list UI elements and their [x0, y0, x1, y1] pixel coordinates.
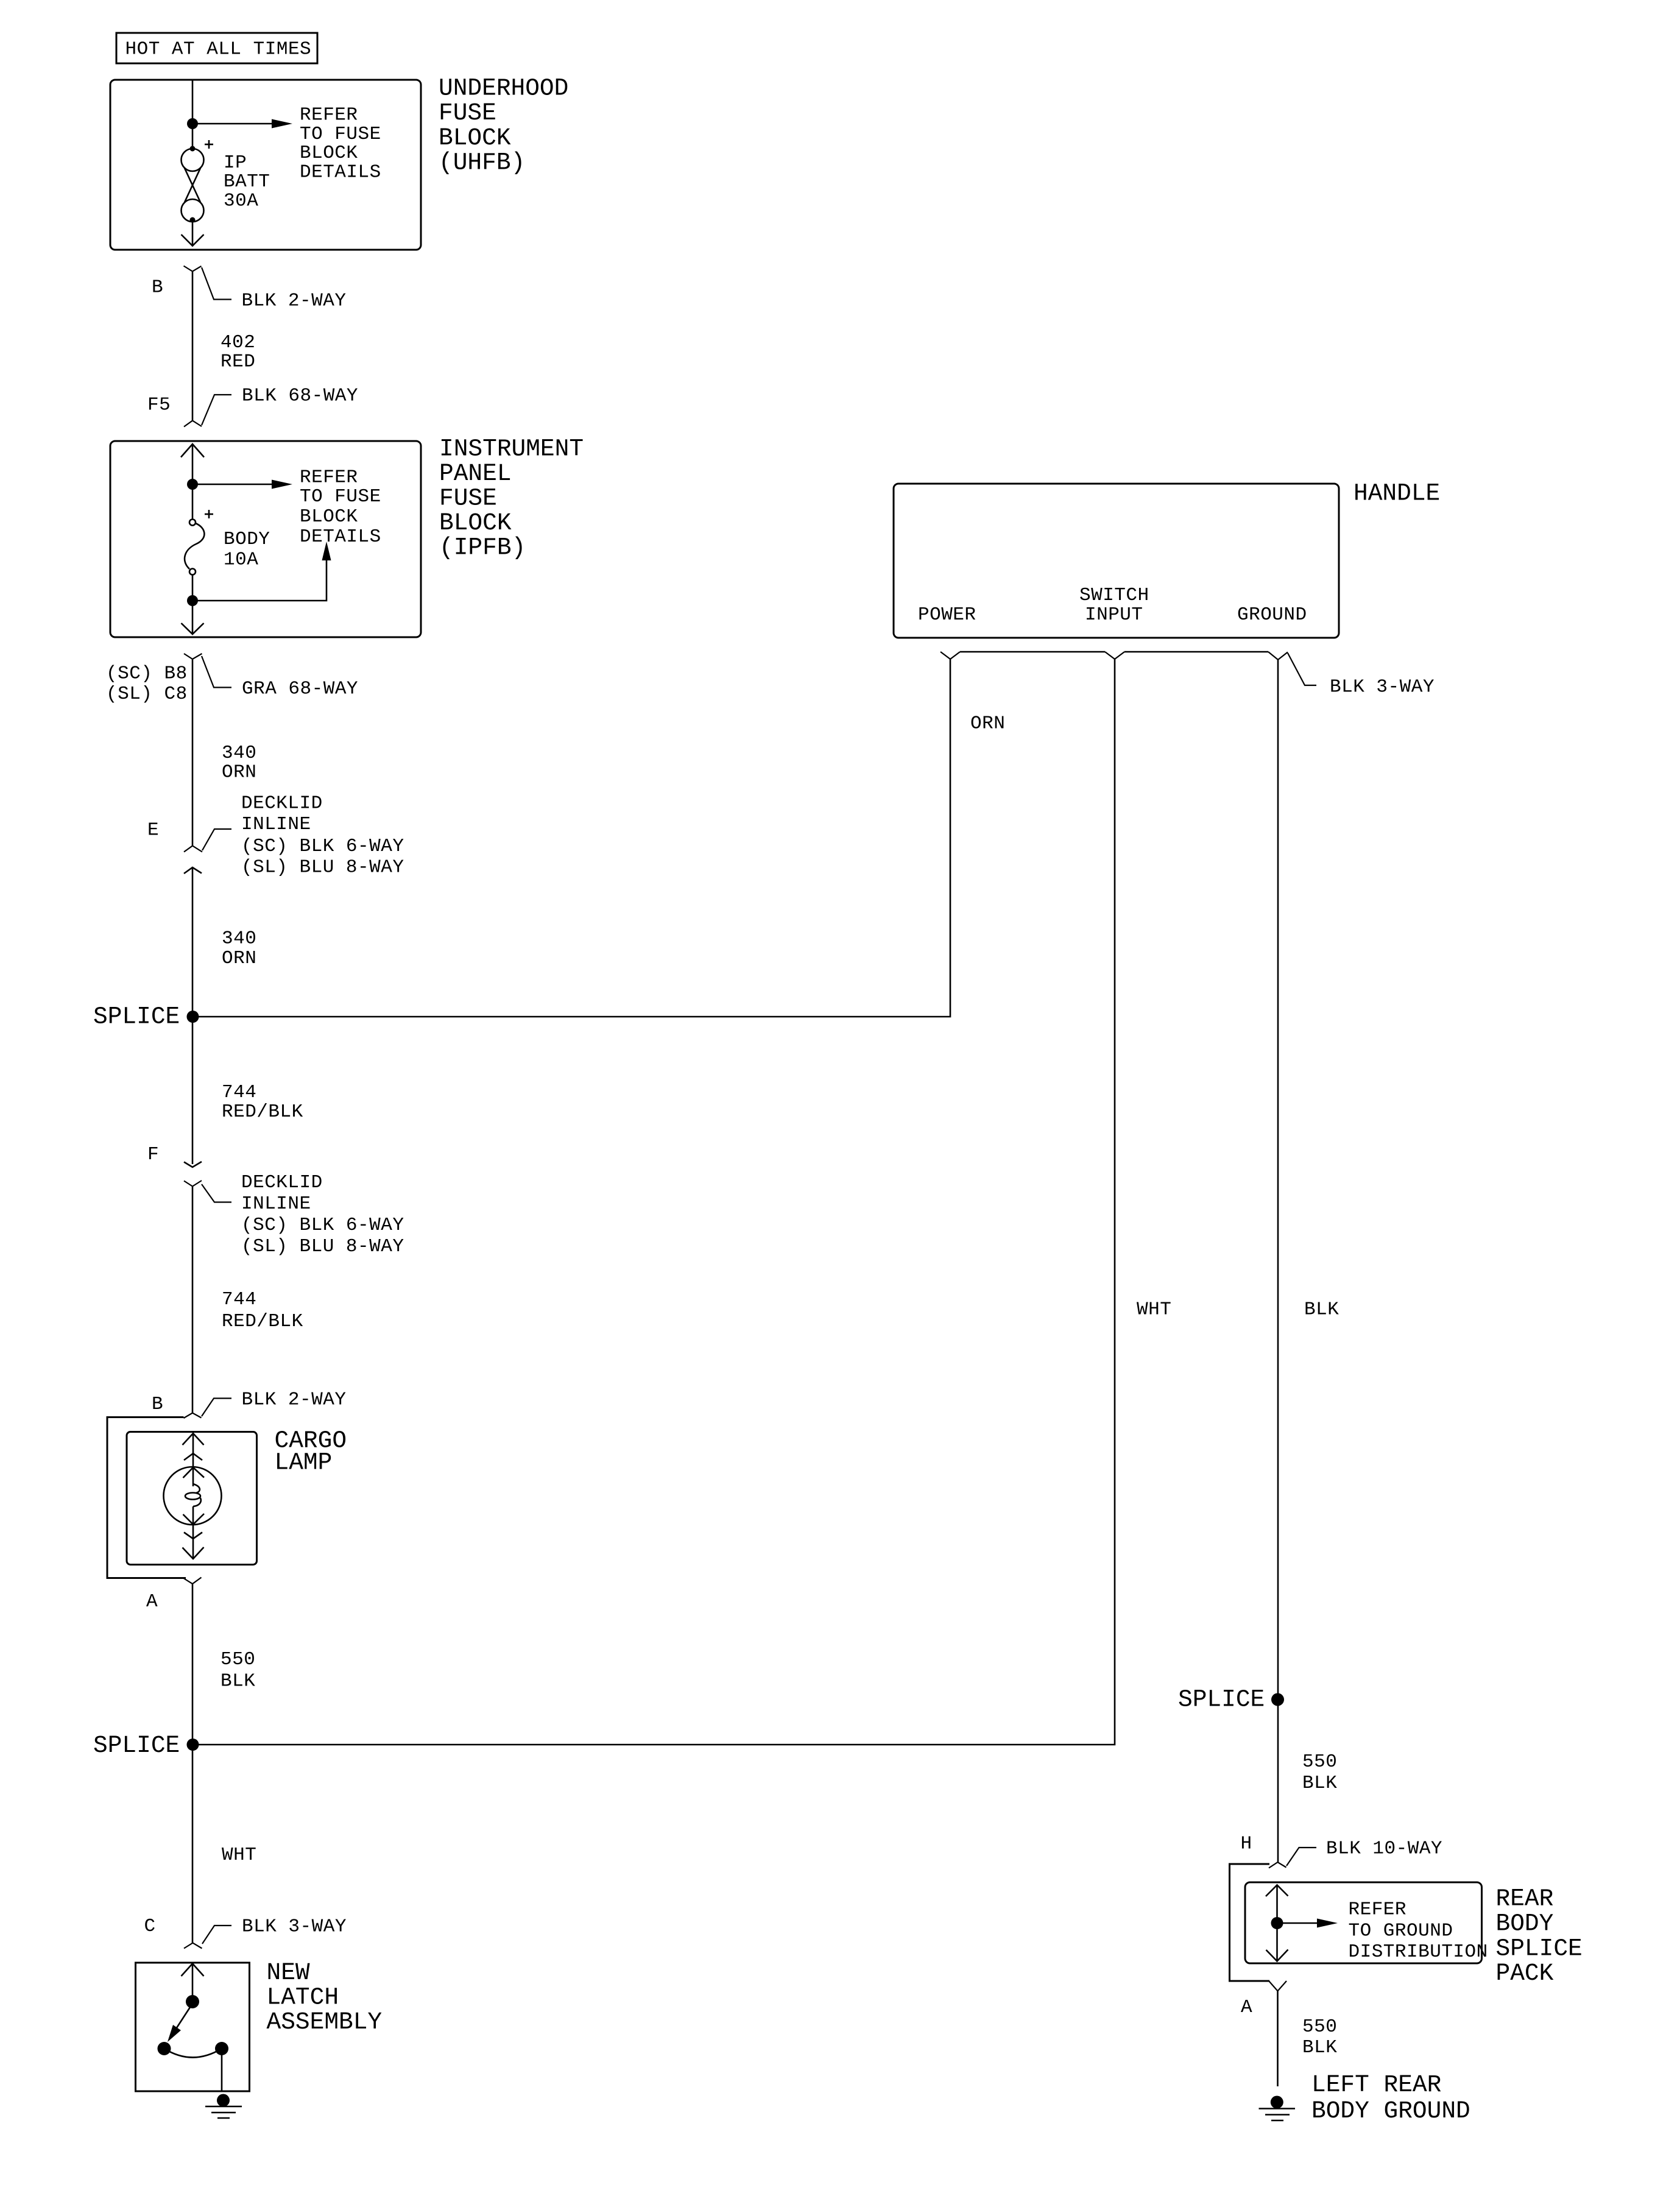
- svg-text:BLK 2-WAY: BLK 2-WAY: [242, 291, 347, 312]
- svg-text:WHT: WHT: [1137, 1299, 1171, 1321]
- ground symbol latch: [205, 2094, 242, 2119]
- svg-text:GRA 68-WAY: GRA 68-WAY: [242, 679, 358, 700]
- svg-text:BLK 10-WAY: BLK 10-WAY: [1326, 1838, 1442, 1860]
- label 550 BLK right upper: [1302, 1751, 1337, 1794]
- svg-text:(SC) BLK 6-WAY: (SC) BLK 6-WAY: [241, 836, 404, 857]
- label REFER TO FUSE BLOCK DETAILS (UHFB): [300, 105, 381, 183]
- plus terminal mark: [205, 140, 213, 149]
- arrow to ground distribution: [1277, 1919, 1338, 1928]
- rear body splice pack box: [1245, 1882, 1482, 1963]
- svg-text:402: 402: [221, 332, 255, 353]
- svg-text:RED: RED: [221, 351, 255, 372]
- svg-text:H: H: [1241, 1834, 1252, 1855]
- svg-text:DECKLID: DECKLID: [241, 793, 323, 814]
- svg-text:(IPFB): (IPFB): [439, 534, 526, 562]
- hot at all times label box: [116, 33, 317, 63]
- underhood fuse block UHFB box: [110, 80, 421, 250]
- cargo lamp bulb symbol: [164, 1433, 222, 1559]
- svg-text:TO FUSE: TO FUSE: [300, 124, 381, 145]
- connector A splice pack: [1269, 1981, 1286, 1991]
- svg-text:(SC) B8: (SC) B8: [106, 663, 188, 685]
- label DECKLID INLINE (SC) BLK 6-WAY (SL) BLU 8-WAY upper: [241, 793, 404, 878]
- svg-text:DISTRIBUTION: DISTRIBUTION: [1349, 1941, 1488, 1963]
- wire 402 RED: [192, 272, 194, 421]
- label 744 RED/BLK upper: [222, 1082, 303, 1123]
- svg-text:BLK: BLK: [1302, 2037, 1337, 2058]
- svg-text:RED/BLK: RED/BLK: [222, 1311, 303, 1332]
- label 402 RED: [221, 332, 255, 372]
- junction dot in UHFB: [187, 118, 198, 129]
- svg-text:RED/BLK: RED/BLK: [222, 1101, 303, 1123]
- svg-text:F5: F5: [147, 395, 171, 416]
- svg-text:BLOCK: BLOCK: [300, 506, 358, 528]
- svg-text:LATCH: LATCH: [267, 1984, 339, 2011]
- connector C BLK 3-WAY: [184, 1926, 231, 1949]
- label 744 RED/BLK lower: [222, 1289, 303, 1332]
- inline connector F decklid: [184, 1162, 231, 1202]
- svg-text:(SL) C8: (SL) C8: [106, 683, 188, 705]
- svg-text:TO GROUND: TO GROUND: [1349, 1920, 1453, 1941]
- svg-text:A: A: [1241, 1997, 1252, 2018]
- svg-text:REFER: REFER: [1349, 1899, 1407, 1921]
- svg-text:FUSE: FUSE: [439, 99, 496, 127]
- wire 744 RED/BLK lower: [192, 1187, 194, 1413]
- plus terminal mark IPFB: [205, 510, 213, 518]
- svg-text:BODY: BODY: [224, 529, 270, 550]
- svg-text:B: B: [152, 277, 163, 298]
- svg-text:SWITCH: SWITCH: [1079, 585, 1149, 606]
- svg-text:SPLICE: SPLICE: [1178, 1686, 1265, 1714]
- svg-text:PANEL: PANEL: [439, 460, 512, 487]
- svg-text:FUSE: FUSE: [439, 485, 497, 512]
- label DECKLID INLINE (SC) BLK 6-WAY (SL) BLU 8-WAY lower: [241, 1172, 404, 1257]
- label CARGO LAMP: [275, 1427, 347, 1477]
- label INSTRUMENT PANEL FUSE BLOCK (IPFB): [439, 436, 584, 562]
- pin label SWITCH INPUT: [1079, 585, 1149, 626]
- svg-text:ORN: ORN: [222, 948, 256, 969]
- svg-text:BODY GROUND: BODY GROUND: [1311, 2097, 1470, 2125]
- svg-text:10A: 10A: [224, 549, 258, 571]
- svg-text:340: 340: [222, 928, 256, 950]
- svg-text:TO FUSE: TO FUSE: [300, 486, 381, 507]
- svg-text:B: B: [152, 1394, 163, 1415]
- svg-text:LEFT REAR: LEFT REAR: [1311, 2071, 1441, 2099]
- label REAR BODY SPLICE PACK: [1496, 1885, 1583, 1987]
- label REFER TO FUSE BLOCK DETAILS (IPFB): [300, 467, 381, 548]
- wire with up arrow entering IPFB: [181, 444, 204, 520]
- svg-text:(SL) BLU 8-WAY: (SL) BLU 8-WAY: [241, 857, 404, 878]
- connector A cargo lamp: [184, 1578, 202, 1584]
- new latch assembly box: [136, 1963, 250, 2091]
- wire 550 BLK left: [192, 1584, 194, 1943]
- svg-text:A: A: [146, 1591, 158, 1612]
- latch switch symbol: [158, 1964, 229, 2091]
- svg-text:INLINE: INLINE: [241, 1193, 311, 1215]
- label 550 BLK left: [221, 1649, 255, 1692]
- wire BLK ground from handle: [1277, 660, 1279, 1862]
- splice pack junction dot: [1271, 1917, 1283, 1929]
- svg-text:SPLICE: SPLICE: [93, 1732, 180, 1759]
- svg-text:(SL) BLU 8-WAY: (SL) BLU 8-WAY: [241, 1236, 404, 1257]
- cargo lamp housing bracket: [107, 1417, 186, 1578]
- label 550 BLK right lower: [1302, 2016, 1337, 2058]
- wire with down arrow exiting IPFB: [182, 574, 204, 634]
- wire inside UHFB: [192, 80, 194, 149]
- svg-text:ASSEMBLY: ASSEMBLY: [267, 2008, 383, 2036]
- svg-text:SPLICE: SPLICE: [93, 1003, 180, 1031]
- label REFER TO GROUND DISTRIBUTION: [1349, 1899, 1488, 1963]
- svg-text:POWER: POWER: [918, 604, 976, 626]
- svg-text:550: 550: [1302, 1751, 1337, 1773]
- circuit breaker BODY 10A: [185, 520, 204, 575]
- svg-text:F: F: [147, 1144, 159, 1165]
- svg-text:30A: 30A: [224, 191, 258, 212]
- fuse IP BATT 30A: [182, 146, 204, 223]
- svg-text:REAR: REAR: [1496, 1885, 1554, 1912]
- svg-text:340: 340: [222, 743, 256, 764]
- svg-text:BLK: BLK: [1304, 1299, 1339, 1321]
- svg-text:BLOCK: BLOCK: [439, 124, 511, 152]
- svg-text:REFER: REFER: [300, 467, 358, 489]
- junction dot in IPFB top: [187, 479, 198, 490]
- svg-text:LAMP: LAMP: [275, 1449, 333, 1477]
- splice S1: [93, 1003, 199, 1031]
- svg-text:(SC) BLK 6-WAY: (SC) BLK 6-WAY: [241, 1215, 404, 1236]
- svg-text:GROUND: GROUND: [1237, 604, 1307, 626]
- svg-text:E: E: [147, 820, 159, 841]
- splice pack internal wire and arrows: [1266, 1885, 1288, 1961]
- wire 340 ORN upper: [192, 659, 194, 846]
- svg-text:PACK: PACK: [1496, 1960, 1554, 1987]
- label 340 ORN lower: [222, 928, 256, 969]
- label UNDERHOOD FUSE BLOCK (UHFB): [439, 75, 568, 177]
- svg-text:REFER: REFER: [300, 105, 358, 126]
- handle connector strip BLK 3-WAY: [941, 652, 1316, 685]
- inline connector E decklid: [184, 829, 231, 874]
- svg-text:744: 744: [222, 1082, 256, 1103]
- svg-text:BLK: BLK: [221, 1671, 255, 1692]
- rear body splice pack bracket: [1230, 1864, 1270, 1981]
- svg-text:550: 550: [1302, 2016, 1337, 2038]
- ground symbol left rear body ground: [1259, 2096, 1296, 2121]
- arrow to fuse block details (UHFB): [192, 119, 292, 129]
- label (SC) B8 (SL) C8: [106, 663, 188, 705]
- cargo lamp box: [127, 1432, 257, 1565]
- label BODY 10A: [224, 529, 270, 571]
- svg-text:BLK 68-WAY: BLK 68-WAY: [242, 386, 358, 407]
- instrument panel fuse block IPFB box: [110, 441, 421, 637]
- svg-text:SPLICE: SPLICE: [1496, 1935, 1583, 1962]
- arrow to fuse block details (IPFB): [192, 480, 292, 489]
- label NEW LATCH ASSEMBLY: [267, 1959, 383, 2036]
- wire 550 BLK right lower: [1277, 1991, 1279, 2087]
- svg-text:DETAILS: DETAILS: [300, 161, 381, 183]
- svg-text:BLOCK: BLOCK: [439, 509, 512, 537]
- svg-text:ORN: ORN: [222, 762, 256, 783]
- svg-text:BLOCK: BLOCK: [300, 143, 358, 164]
- svg-text:BATT: BATT: [224, 171, 270, 192]
- wire with down arrow exiting UHFB: [182, 220, 204, 246]
- svg-text:IP: IP: [224, 152, 247, 174]
- svg-text:BLK 2-WAY: BLK 2-WAY: [242, 1389, 347, 1411]
- wire from splice to handle power: [192, 659, 950, 1017]
- splice S3: [1178, 1686, 1284, 1714]
- svg-text:UNDERHOOD: UNDERHOOD: [439, 75, 568, 102]
- svg-text:550: 550: [221, 1649, 255, 1670]
- svg-text:(UHFB): (UHFB): [439, 149, 525, 177]
- connector B cargo lamp BLK 2-WAY: [184, 1399, 232, 1419]
- connector B BLK 2-WAY: [184, 266, 232, 300]
- junction dot in IPFB bottom: [187, 595, 198, 606]
- svg-text:BLK: BLK: [1302, 1773, 1337, 1794]
- svg-text:INPUT: INPUT: [1085, 604, 1143, 626]
- svg-text:DECKLID: DECKLID: [241, 1172, 323, 1193]
- connector F5 BLK 68-WAY: [184, 395, 231, 427]
- connector H BLK 10-WAY: [1269, 1848, 1316, 1868]
- label IP BATT 30A: [224, 152, 270, 212]
- svg-text:HOT AT ALL TIMES: HOT AT ALL TIMES: [125, 39, 312, 60]
- svg-text:INSTRUMENT: INSTRUMENT: [439, 436, 584, 463]
- wire 340 ORN lower: [192, 867, 194, 1164]
- up arrow to details text (IPFB): [192, 542, 331, 601]
- svg-text:ORN: ORN: [970, 713, 1005, 735]
- svg-text:INLINE: INLINE: [241, 814, 311, 835]
- label 340 ORN upper: [222, 743, 256, 783]
- label LEFT REAR BODY GROUND: [1311, 2071, 1470, 2125]
- svg-text:DETAILS: DETAILS: [300, 526, 381, 548]
- svg-text:NEW: NEW: [267, 1959, 310, 1986]
- handle box: [894, 484, 1339, 638]
- svg-text:744: 744: [222, 1289, 256, 1310]
- svg-text:BLK 3-WAY: BLK 3-WAY: [1330, 677, 1435, 698]
- svg-text:WHT: WHT: [222, 1845, 256, 1866]
- svg-text:HANDLE: HANDLE: [1354, 480, 1440, 507]
- svg-text:C: C: [144, 1916, 156, 1937]
- svg-text:BODY: BODY: [1496, 1910, 1554, 1937]
- wire from splice S2 to handle switch input: [192, 659, 1115, 1745]
- svg-text:BLK 3-WAY: BLK 3-WAY: [242, 1916, 347, 1938]
- splice S2: [93, 1732, 199, 1759]
- connector (SC) B8 (SL) C8 GRA 68-WAY: [184, 654, 231, 688]
